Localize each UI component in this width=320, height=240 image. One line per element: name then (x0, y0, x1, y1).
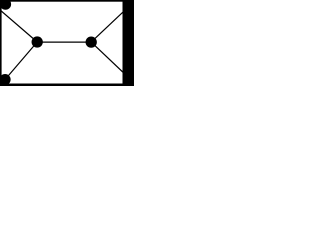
wire edge E2 node B to node D (5, 42, 37, 80)
node B (center-left) (32, 36, 43, 47)
node A (top-left) (0, 0, 11, 10)
wire edge E3 node B to node C (37, 41, 91, 43)
left border (0, 0, 2, 86)
right black band (123, 0, 135, 86)
wire edge E1 from left border to node B (0, 9, 37, 42)
wire edge E5 node C to bottom-right corner (91, 42, 134, 83)
top border (0, 0, 134, 2)
wire edge E4 node C to top-right corner (91, 2, 134, 43)
background (0, 0, 134, 86)
node D (bottom-left) (0, 74, 11, 85)
node C (center-right) (86, 36, 97, 47)
bottom border (0, 84, 134, 87)
